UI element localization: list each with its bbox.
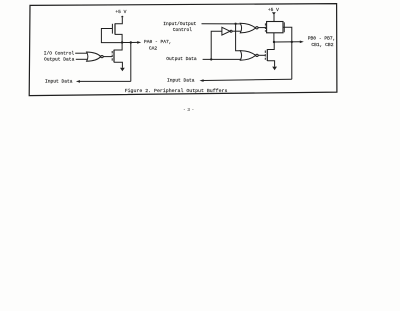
NOR gate G2 bubble: [256, 27, 258, 29]
wire VCC2 to Q3: [273, 14, 275, 22]
wire node A to node B: [122, 42, 131, 44]
arrowhead Input Data (left): [76, 80, 80, 83]
arrowhead PA output: [137, 41, 141, 44]
wire G3 output to Q4 gate: [258, 54, 265, 56]
ground GND2: [272, 67, 277, 71]
transistor Q3 box shadow edge: [283, 22, 285, 32]
wire node E to PB output arrow: [274, 41, 300, 43]
transistor Q2 gate bar: [111, 51, 113, 61]
wire Output Data to G1 input: [76, 58, 88, 60]
svg-text:-3-: -3-: [183, 107, 196, 113]
wire Q1 source to node A: [115, 34, 122, 42]
NOR gate G1 body: [87, 52, 101, 61]
inverter U1 triangle: [222, 27, 230, 35]
wire I/O Control to G1 input: [75, 52, 88, 54]
transistor Q2 drain wire from node A: [114, 43, 122, 51]
svg-text:+5 V: +5 V: [115, 9, 126, 15]
wire Q4 source to ground: [267, 61, 274, 67]
svg-text:PB0 - PB7,: PB0 - PB7,: [308, 36, 336, 42]
wire G2 output to Q3 gate: [258, 27, 266, 29]
wire node B to PA output arrow: [131, 41, 138, 43]
wire Q3 right side to right rail: [283, 27, 292, 79]
ground GND1: [120, 68, 125, 72]
svg-text:Output Data: Output Data: [44, 56, 75, 62]
node B junction dot: [130, 41, 132, 43]
transistor Q3 body box: [267, 22, 283, 33]
arrowhead Input Data (right): [200, 79, 204, 82]
transistor Q4 drain wire from node E: [267, 42, 274, 50]
transistor Q4 gate bar: [264, 51, 266, 60]
transistor Q2 channel bar: [113, 50, 115, 63]
wire node B down to Input Data (left): [130, 43, 132, 82]
NOR gate G3 bubble: [256, 54, 258, 56]
wire node C down to G3 input: [236, 24, 241, 51]
transistor Q3 gate bar: [264, 23, 266, 31]
inverter U1 bubble: [230, 30, 232, 32]
transistor Q4 channel bar: [266, 49, 268, 61]
wire G1 output to Q2 gate: [103, 56, 112, 58]
svg-text:Input/Output: Input/Output: [163, 21, 196, 27]
svg-text:CB1, CB2: CB1, CB2: [311, 42, 333, 48]
svg-text:Output Data: Output Data: [166, 56, 197, 62]
wire Input Data horizontal (left): [80, 80, 131, 82]
NOR gate G2 body: [240, 23, 255, 33]
figure border frame: [29, 4, 337, 96]
node F junction dot: [291, 41, 293, 43]
transistor Q1 gate bar: [111, 24, 113, 34]
wire Q2 source to ground: [114, 62, 122, 68]
wire U1 output to G2 input: [232, 30, 240, 32]
wire Input Data horizontal (right): [203, 79, 291, 80]
wire Input/Output Control to G2 input: [202, 23, 241, 25]
node E junction dot: [273, 41, 275, 43]
terminal VCC1: [121, 16, 123, 18]
svg-text:Control: Control: [173, 27, 193, 33]
node D junction dot: [210, 58, 212, 60]
svg-text:Input Data: Input Data: [167, 78, 195, 84]
NOR gate G3 body: [240, 51, 255, 61]
svg-text:Input Data: Input Data: [45, 79, 73, 85]
arrowhead PB output: [300, 41, 304, 44]
node A junction dot: [121, 41, 123, 43]
svg-text:I/O Control: I/O Control: [44, 51, 75, 57]
svg-text:PA0 - PA7,: PA0 - PA7,: [144, 39, 172, 45]
terminal VCC2: [272, 12, 276, 15]
svg-text:Figure 2. Peripheral Output Bu: Figure 2. Peripheral Output Buffers: [125, 88, 228, 94]
NOR gate G1 bubble: [101, 55, 103, 57]
wire VCC1 to Q1 drain: [115, 18, 122, 24]
svg-text:CA2: CA2: [149, 46, 158, 52]
wire node D up to inverter U1 input: [211, 31, 222, 59]
svg-text:+5 V: +5 V: [268, 7, 279, 13]
wire Q3 bottom to node E: [273, 33, 275, 42]
wire Output Data to G3 input: [203, 58, 241, 60]
node C junction dot: [234, 23, 236, 25]
transistor Q1 channel bar: [114, 23, 116, 34]
wire Q1 gate to output node: [101, 29, 122, 43]
